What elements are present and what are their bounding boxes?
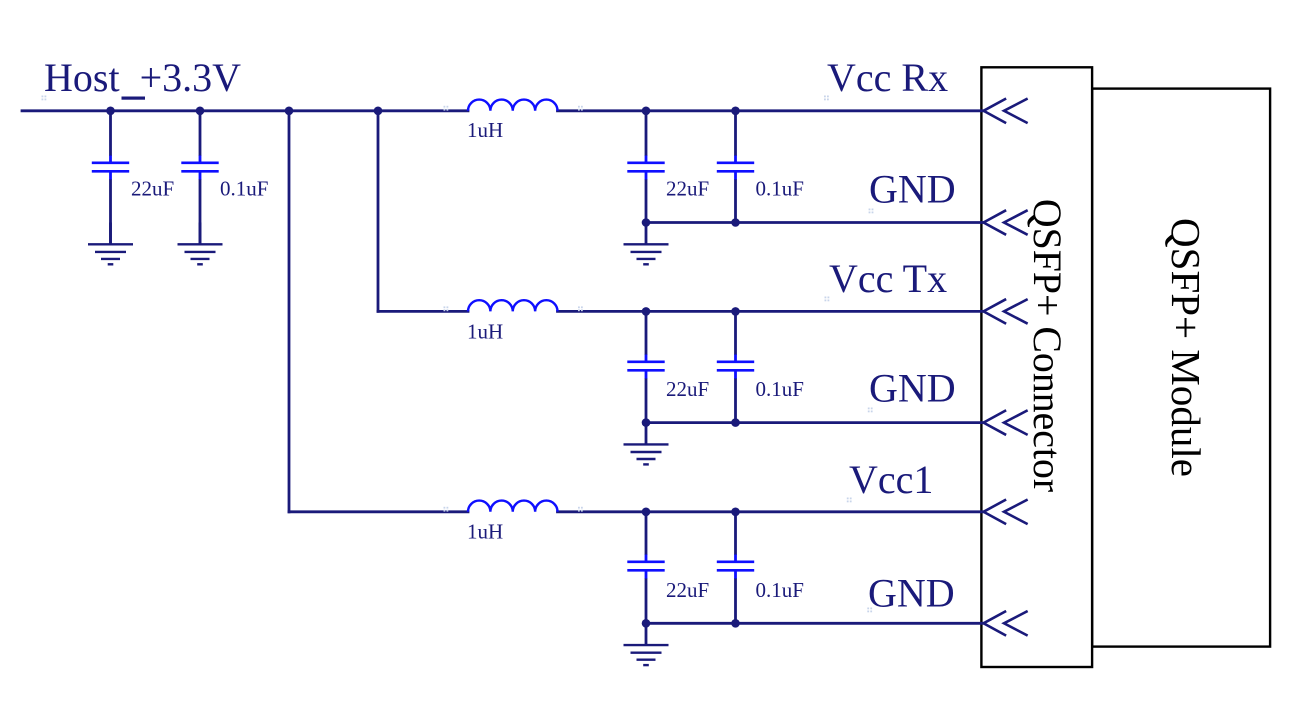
svg-text:1uH: 1uH (467, 320, 503, 344)
svg-text:Vcc Tx: Vcc Tx (829, 256, 947, 301)
svg-text:0.1uF: 0.1uF (756, 177, 804, 201)
svg-text:1uH: 1uH (467, 520, 503, 544)
svg-text:QSFP+ Module: QSFP+ Module (1163, 218, 1209, 477)
svg-text:QSFP+ Connector: QSFP+ Connector (1025, 199, 1069, 492)
svg-text:Host_+3.3V: Host_+3.3V (44, 55, 241, 100)
svg-text:GND: GND (869, 167, 956, 212)
svg-text:Vcc Rx: Vcc Rx (827, 55, 948, 100)
svg-text:0.1uF: 0.1uF (756, 578, 804, 602)
svg-text:22uF: 22uF (666, 377, 709, 401)
svg-text:22uF: 22uF (666, 177, 709, 201)
svg-text:Vcc1: Vcc1 (849, 457, 933, 502)
svg-text:1uH: 1uH (467, 118, 503, 142)
svg-text:22uF: 22uF (666, 578, 709, 602)
svg-text:GND: GND (869, 366, 956, 411)
svg-text:GND: GND (868, 571, 955, 616)
svg-text:0.1uF: 0.1uF (756, 377, 804, 401)
svg-text:22uF: 22uF (131, 177, 174, 201)
svg-text:0.1uF: 0.1uF (220, 177, 268, 201)
